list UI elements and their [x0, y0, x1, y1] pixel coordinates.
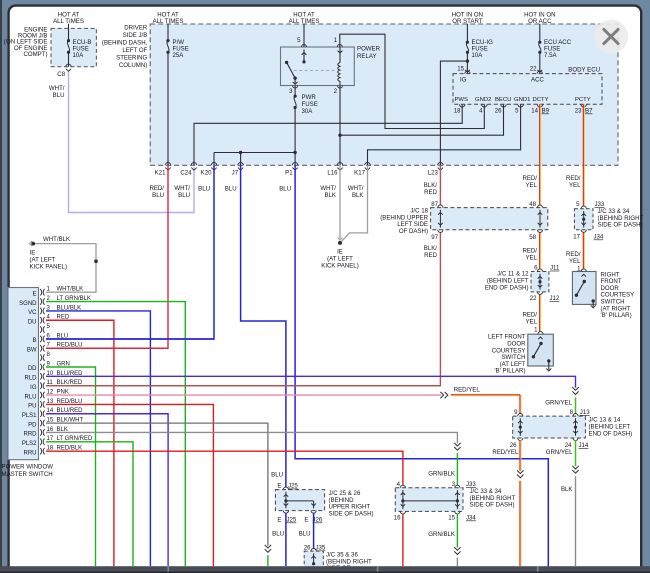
svg-text:BLK/: BLK/: [424, 182, 438, 189]
svg-text:POWER WINDOW: POWER WINDOW: [2, 464, 54, 471]
svg-text:J34: J34: [594, 234, 604, 241]
svg-text:BLK: BLK: [352, 192, 364, 199]
svg-text:GRN/YEL: GRN/YEL: [545, 400, 572, 407]
svg-text:KICK PANEL): KICK PANEL): [30, 264, 67, 271]
svg-text:ACC: ACC: [531, 77, 544, 84]
svg-text:RED/: RED/: [522, 248, 537, 255]
svg-text:J33: J33: [595, 201, 605, 208]
svg-text:J35: J35: [316, 545, 326, 552]
svg-text:PWS: PWS: [455, 97, 468, 103]
svg-text:FUSE: FUSE: [302, 101, 318, 108]
svg-text:GRN/BLK: GRN/BLK: [428, 471, 455, 478]
svg-text:K20: K20: [201, 170, 212, 177]
svg-text:DD: DD: [28, 366, 37, 372]
svg-text:PWR: PWR: [302, 94, 317, 101]
svg-text:E: E: [277, 483, 281, 490]
svg-text:10A: 10A: [472, 52, 484, 59]
svg-text:BW: BW: [27, 348, 37, 354]
svg-text:WHT/: WHT/: [348, 185, 364, 192]
svg-text:IE: IE: [337, 249, 343, 256]
svg-text:COMPT): COMPT): [23, 51, 47, 58]
svg-text:(BEHIND DASH,: (BEHIND DASH,: [102, 40, 148, 47]
svg-text:BLU: BLU: [152, 192, 164, 199]
svg-text:97: 97: [431, 234, 438, 241]
svg-text:J11: J11: [550, 265, 560, 272]
svg-text:BLU: BLU: [225, 186, 237, 193]
svg-text:GRN/BLK: GRN/BLK: [428, 531, 455, 538]
svg-text:GRN/YEL: GRN/YEL: [546, 449, 573, 456]
svg-text:26: 26: [304, 545, 311, 552]
svg-text:J33: J33: [466, 481, 476, 488]
svg-text:26: 26: [510, 442, 517, 449]
svg-text:BLU: BLU: [53, 92, 65, 99]
svg-text:J25: J25: [288, 483, 298, 490]
svg-text:58: 58: [529, 234, 536, 241]
svg-text:BECU: BECU: [495, 97, 511, 103]
svg-text:WHT/BLK: WHT/BLK: [43, 236, 70, 243]
svg-text:30A: 30A: [302, 108, 314, 115]
svg-text:WHT/: WHT/: [174, 185, 190, 192]
svg-text:BLK: BLK: [324, 192, 336, 199]
svg-text:DU: DU: [28, 319, 37, 325]
svg-text:RED/: RED/: [566, 175, 581, 182]
svg-text:SIDE J/B: SIDE J/B: [123, 32, 148, 39]
svg-text:RED/: RED/: [522, 312, 537, 319]
svg-text:E: E: [32, 291, 36, 297]
svg-text:J34: J34: [466, 515, 476, 522]
svg-text:BLU: BLU: [178, 192, 190, 199]
svg-text:DRIVER: DRIVER: [124, 25, 148, 32]
svg-text:RELAY: RELAY: [357, 53, 377, 60]
svg-text:IE: IE: [30, 250, 36, 257]
svg-text:23: 23: [575, 108, 582, 115]
svg-text:BLK: BLK: [561, 486, 573, 493]
svg-text:J25: J25: [287, 517, 297, 524]
svg-text:SGND: SGND: [19, 301, 37, 307]
svg-text:BLU: BLU: [271, 472, 283, 479]
svg-text:15: 15: [457, 66, 464, 73]
svg-text:RLD: RLD: [24, 376, 37, 382]
svg-text:J13: J13: [580, 409, 590, 416]
svg-text:RED: RED: [424, 189, 437, 196]
svg-text:PU: PU: [28, 404, 36, 410]
svg-text:LEFT OF: LEFT OF: [122, 47, 147, 54]
svg-text:RED/YEL: RED/YEL: [492, 449, 519, 456]
svg-text:RLU: RLU: [24, 394, 36, 400]
svg-text:MASTER SWITCH: MASTER SWITCH: [2, 471, 53, 478]
svg-text:16: 16: [394, 515, 401, 522]
svg-text:YEL: YEL: [569, 182, 581, 189]
svg-text:L16: L16: [327, 170, 338, 177]
svg-text:BLU: BLU: [299, 531, 311, 538]
svg-text:C24: C24: [180, 170, 192, 177]
svg-text:BLU: BLU: [279, 186, 291, 193]
svg-text:WHT/: WHT/: [320, 185, 336, 192]
svg-text:87: 87: [431, 201, 438, 208]
svg-text:BODY ECU: BODY ECU: [568, 67, 600, 74]
svg-text:22: 22: [530, 66, 537, 73]
svg-text:15: 15: [448, 515, 455, 522]
svg-text:10A: 10A: [73, 52, 85, 59]
svg-text:RED/: RED/: [522, 175, 537, 182]
svg-text:BLK/: BLK/: [424, 245, 438, 252]
svg-text:E: E: [277, 517, 281, 524]
svg-text:YEL: YEL: [525, 255, 537, 262]
svg-text:DCTY: DCTY: [533, 97, 549, 103]
svg-text:RED/: RED/: [566, 251, 581, 258]
svg-text:BLU: BLU: [198, 186, 210, 193]
svg-text:C8: C8: [57, 71, 65, 78]
svg-text:22: 22: [530, 295, 537, 302]
svg-text:RRU: RRU: [24, 450, 37, 456]
svg-text:POWER: POWER: [357, 46, 381, 53]
svg-text:KICK PANEL): KICK PANEL): [321, 263, 358, 270]
svg-text:(AT LEFT: (AT LEFT: [30, 257, 56, 264]
svg-text:18: 18: [454, 108, 461, 115]
svg-text:RRD: RRD: [24, 432, 38, 438]
svg-text:PCTY: PCTY: [575, 97, 591, 103]
svg-text:RED: RED: [424, 252, 437, 259]
svg-text:'B' PILLAR): 'B' PILLAR): [494, 368, 525, 375]
svg-text:END OF DASH): END OF DASH): [589, 430, 633, 437]
svg-text:25A: 25A: [173, 52, 185, 59]
svg-text:P1: P1: [285, 170, 293, 177]
svg-text:GND1: GND1: [514, 97, 530, 103]
svg-text:7.5A: 7.5A: [544, 52, 557, 59]
svg-text:VC: VC: [28, 310, 37, 316]
svg-text:COLUMN): COLUMN): [119, 62, 147, 69]
svg-text:14: 14: [531, 108, 538, 115]
svg-text:(AT LEFT: (AT LEFT: [327, 256, 353, 263]
svg-text:SIDE OF DASH): SIDE OF DASH): [598, 222, 643, 229]
svg-text:17: 17: [573, 234, 580, 241]
svg-text:IG: IG: [460, 77, 467, 84]
svg-text:26: 26: [495, 108, 502, 115]
svg-text:L23: L23: [428, 170, 439, 177]
svg-text:GND2: GND2: [475, 97, 491, 103]
svg-text:PD: PD: [28, 422, 37, 428]
svg-text:YEL: YEL: [525, 182, 537, 189]
svg-text:K17: K17: [354, 170, 365, 177]
svg-text:END OF DASH): END OF DASH): [485, 284, 529, 291]
svg-text:24: 24: [565, 442, 572, 449]
svg-text:B: B: [32, 338, 36, 344]
svg-text:B9: B9: [542, 108, 550, 115]
svg-text:J7: J7: [232, 170, 239, 177]
svg-text:PLS2: PLS2: [22, 441, 37, 447]
svg-text:48: 48: [529, 201, 536, 208]
svg-text:SIDE OF DASH): SIDE OF DASH): [329, 510, 374, 517]
svg-text:RED/: RED/: [149, 185, 164, 192]
svg-text:K21: K21: [155, 170, 166, 177]
svg-text:'B' PILLAR): 'B' PILLAR): [601, 312, 632, 319]
svg-text:STEERING: STEERING: [116, 55, 147, 62]
svg-text:OF DASH): OF DASH): [399, 228, 428, 235]
svg-text:RED/YEL: RED/YEL: [454, 387, 481, 394]
svg-text:IG: IG: [30, 385, 37, 391]
svg-text:SIDE OF DASH): SIDE OF DASH): [470, 502, 515, 509]
svg-text:E: E: [304, 517, 308, 524]
svg-text:YEL: YEL: [525, 319, 537, 326]
svg-text:YEL: YEL: [569, 258, 581, 265]
svg-text:BLU: BLU: [272, 531, 284, 538]
svg-text:J14: J14: [579, 442, 589, 449]
svg-text:B7: B7: [585, 108, 593, 115]
svg-text:PLS1: PLS1: [22, 413, 37, 419]
svg-text:J12: J12: [550, 295, 560, 302]
svg-text:WHT/: WHT/: [49, 85, 65, 92]
